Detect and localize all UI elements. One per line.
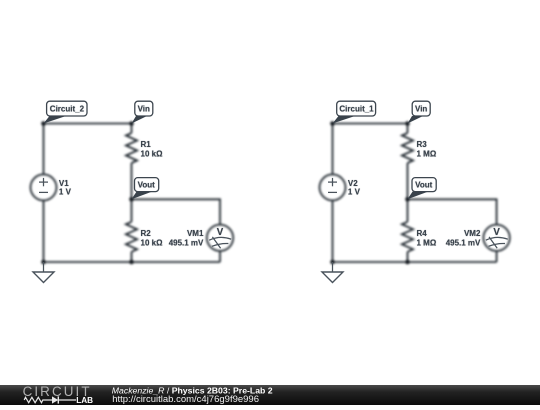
svg-text:R3: R3 [417,140,428,149]
wire resistor column top right circuit [407,124,409,134]
ground right circuit [332,262,334,272]
node R2-bottom junction dot [129,260,134,265]
svg-text:R4: R4 [417,229,428,238]
resistor R1 [126,133,137,163]
svg-text:V: V [493,227,500,238]
svg-text:V1: V1 [59,179,69,188]
svg-text:Vout: Vout [138,181,156,190]
node Vout left junction dot [129,197,134,202]
wire R1 bottom to Vout node [131,163,133,199]
resistor R3 [402,133,413,163]
logo diode triangle [52,396,58,403]
node flag Circuit_2 box [47,101,87,116]
wire left rail lower right circuit [332,200,334,262]
node flag Vout right box [412,178,436,192]
node flag Vout left pointer [132,192,153,200]
voltmeter VM1 gauge arcs and needle [209,237,231,240]
wire Vout node to R4 top right [407,199,409,222]
node flag Circuit_1 pointer [333,116,356,124]
voltmeter VM1 [207,225,233,251]
svg-text:VM1: VM1 [187,229,204,238]
node flag Circuit_1 box [337,101,376,116]
node ground-left junction dot [41,260,46,265]
wire R2 bottom to bottom rail [131,252,133,262]
node Vout right junction dot [405,197,410,202]
node Vin left junction dot [129,121,134,126]
voltage source V1 plus-minus marks [39,181,48,183]
node Circuit_1 junction dot [330,121,335,126]
voltage source V1 [31,174,57,200]
svg-text:http://circuitlab.com/c4j76g9f: http://circuitlab.com/c4j76g9f9e996 [112,394,259,405]
svg-text:V: V [217,227,224,238]
svg-text:Vin: Vin [415,105,427,114]
resistor R4 [402,222,413,252]
svg-text:VM2: VM2 [464,229,481,238]
svg-text:10 kΩ: 10 kΩ [141,150,164,159]
node flag Vin right box [412,101,430,116]
svg-text:LAB: LAB [76,396,93,405]
wire Vout node to voltmeter column [132,199,221,224]
node flag Vin left box [135,101,153,116]
node Circuit_2 junction dot [41,121,46,126]
resistor R2 [126,222,137,252]
svg-text:1 MΩ: 1 MΩ [417,239,437,248]
svg-text:10 kΩ: 10 kΩ [141,239,164,248]
svg-text:1 V: 1 V [59,188,72,197]
node ground-right junction dot [330,260,335,265]
wire R3 bottom to Vout node right [407,163,409,199]
svg-text:495.1 mV: 495.1 mV [446,238,481,247]
svg-text:1 V: 1 V [348,188,361,197]
svg-text:1 MΩ: 1 MΩ [417,150,437,159]
voltmeter VM2 [483,225,509,251]
svg-text:Vout: Vout [415,181,433,190]
svg-text:R2: R2 [141,229,152,238]
wire Vout node to voltmeter column right [408,199,497,224]
ground left circuit [43,262,45,272]
wire resistor column top (Vin node to R1) [131,124,133,134]
voltmeter VM2 gauge arcs and needle [486,237,508,240]
voltage source V2 plus-minus marks [328,181,337,183]
node flag Vout right pointer [408,192,429,200]
node R4-bottom junction dot [405,260,410,265]
wire R4 bottom to bottom rail right [407,252,409,262]
svg-text:Circuit_1: Circuit_1 [339,105,374,114]
wire VM1 bottom to bottom rail [219,251,221,262]
logo schematic line with resistor [24,396,76,403]
node flag Circuit_2 pointer [44,116,67,124]
wire VM2 bottom to bottom rail right [496,251,498,262]
svg-text:R1: R1 [141,140,152,149]
wire bottom rail left circuit [44,261,221,263]
wire top rail right circuit [333,123,408,125]
wire left rail lower (V1 bottom to bottom rail) [43,200,45,262]
wire left rail upper right circuit [332,124,334,175]
wire left rail upper (node to V1 top) [43,124,45,175]
svg-text:495.1 mV: 495.1 mV [169,238,204,247]
voltage source V2 [320,174,346,200]
svg-text:Circuit_2: Circuit_2 [50,105,85,114]
node flag Vout left box [135,178,159,192]
wire Vout node to R2 top [131,199,133,222]
wire top rail left circuit [44,123,132,125]
node flag Vin left pointer [132,116,148,124]
node flag Vin right pointer [408,116,424,124]
svg-text:Vin: Vin [138,105,150,114]
node Vin right junction dot [405,121,410,126]
svg-text:V2: V2 [348,179,358,188]
wire bottom rail right circuit [333,261,497,263]
